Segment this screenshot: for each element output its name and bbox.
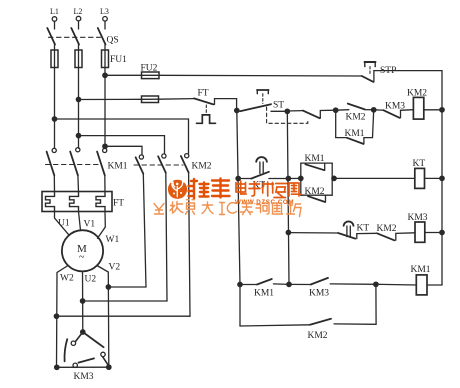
node parallel box row1 left xyxy=(334,108,338,112)
svg-text:KM2: KM2 xyxy=(305,187,325,197)
wire motor W2 down xyxy=(57,266,69,368)
wire L2 column to KM1 pole2 xyxy=(78,68,80,149)
node branch L3 to KM2 pole1 xyxy=(103,144,107,148)
coil KT xyxy=(413,159,426,188)
coil KM3 xyxy=(408,213,428,242)
node row4 bypass junction xyxy=(374,282,378,286)
coil KM1 xyxy=(411,265,431,295)
node branch L2 to KM2 pole2 xyxy=(76,133,80,137)
svg-text:KM2: KM2 xyxy=(377,224,397,234)
node parallel box row1 right xyxy=(372,108,376,112)
node U2 junction xyxy=(80,299,84,303)
wire L2 branch to KM2 pole2 xyxy=(79,136,165,154)
watermark text 维库 xyxy=(189,179,230,200)
wire L3 branch to KM2 pole1 xyxy=(105,146,142,155)
svg-text:FT: FT xyxy=(113,199,124,209)
wire L3 to fuse FU2a xyxy=(105,74,142,76)
node middle rail row4 xyxy=(287,282,291,286)
wire V2 to KM2 pole1 output xyxy=(108,286,146,288)
wire U2 to KM2 pole2 output xyxy=(83,300,167,302)
svg-text:QS: QS xyxy=(107,36,119,46)
node FT output junction xyxy=(235,108,239,112)
wire KT coil to right rail xyxy=(425,177,443,179)
wire right control rail xyxy=(441,71,443,285)
svg-text:KM1: KM1 xyxy=(108,162,128,172)
node ST output junction xyxy=(285,109,289,113)
wire row4 to KM1 coil xyxy=(376,283,416,286)
contactor KM1 main pole 3 xyxy=(97,148,107,175)
QS mechanical link (dashed) xyxy=(49,36,101,38)
wire KM2 pole1 output drop xyxy=(143,174,146,287)
wire KM1 pole2 to FT heater2 xyxy=(77,175,80,191)
svg-text:V1: V1 xyxy=(84,220,96,230)
contactor KM3 contact c (bottom) xyxy=(73,358,94,367)
contactor KM2 main pole 1 xyxy=(136,155,144,174)
fuse FU2 (lower) xyxy=(142,96,159,103)
node left rail row2 xyxy=(236,176,240,180)
contact KT delayed-open (row3) xyxy=(288,221,369,238)
node L3 terminal xyxy=(100,7,109,21)
node right rail row3 xyxy=(440,230,444,234)
svg-text:KM3: KM3 xyxy=(385,102,405,112)
contact KM2 interlock (row3) xyxy=(357,224,415,240)
contactor KM2 main pole 2 xyxy=(158,154,166,173)
wire KM2 pole3 output drop xyxy=(189,173,190,317)
contact ST linked pole (NO) xyxy=(287,110,335,118)
wire FT to motor V1 xyxy=(79,212,81,231)
node KM3 bottom-left xyxy=(55,365,59,369)
coil KM2 xyxy=(407,89,427,120)
fuse FU1 pole 1 xyxy=(51,50,58,68)
contact KM3 auxiliary (row4) xyxy=(289,278,376,299)
contactor KM3 contact b (apex right) xyxy=(83,332,109,366)
switch QS pole 3 xyxy=(98,28,106,45)
fuse FU2 (upper) xyxy=(141,64,160,79)
switch QS pole 2 xyxy=(71,28,79,45)
push button ST (NO start) xyxy=(240,90,284,111)
wire L2 drop to QS xyxy=(78,21,80,29)
node junction L2 to FU2b xyxy=(76,97,80,101)
contact KM2 auxiliary (row2 bottom branch) xyxy=(301,178,332,202)
svg-text:KM2: KM2 xyxy=(407,89,427,99)
contact KM2 bypass (row5) xyxy=(240,284,376,341)
wire left control rail xyxy=(237,111,240,327)
svg-text:KM2: KM2 xyxy=(192,162,212,172)
ST linkage dashes xyxy=(267,107,308,123)
wire KM1 pole3 to FT heater3 xyxy=(104,175,106,191)
contactor KM1 main pole 2 xyxy=(70,148,80,176)
svg-text:W1: W1 xyxy=(106,235,120,245)
svg-text:L2: L2 xyxy=(74,7,83,16)
thermal contact FT (NC) xyxy=(194,89,237,114)
node right rail row1 xyxy=(440,108,444,112)
node middle rail row2 xyxy=(286,176,290,180)
svg-text:U2: U2 xyxy=(85,275,97,285)
wire KM3 bottom side xyxy=(57,366,109,368)
node middle rail row3 xyxy=(286,230,290,234)
wire box row2 right side xyxy=(331,163,333,195)
wire W2 to KM2 pole3 output xyxy=(57,315,191,317)
svg-text:W2: W2 xyxy=(60,274,74,284)
svg-text:KM1: KM1 xyxy=(345,129,365,139)
fuse FU1 pole 3 xyxy=(102,50,109,68)
wire L1 drop to QS xyxy=(54,21,56,29)
svg-text:FU1: FU1 xyxy=(110,55,127,65)
push button STP (NC stop) xyxy=(362,62,397,82)
svg-text:FU2: FU2 xyxy=(141,64,158,74)
svg-text:KM2: KM2 xyxy=(308,331,328,341)
node L1 terminal xyxy=(50,7,59,21)
node parallel box row2 right xyxy=(332,176,336,180)
wire L1 branch to KM2 pole3 xyxy=(55,119,189,154)
FT heater element 1 xyxy=(46,192,55,212)
svg-text:L1: L1 xyxy=(50,7,59,16)
svg-text:U1: U1 xyxy=(58,219,70,229)
motor M xyxy=(62,230,103,271)
wire KM2 pole2 output drop xyxy=(166,173,167,301)
node KM3 star apex xyxy=(81,330,85,334)
wire row2 to KT coil xyxy=(332,177,415,179)
svg-text:KM1: KM1 xyxy=(411,265,431,275)
wire middle control rail xyxy=(287,111,289,284)
svg-text:L3: L3 xyxy=(100,7,109,16)
svg-text:KM2: KM2 xyxy=(346,113,366,123)
contact KM1 auxiliary (row1 bottom branch) xyxy=(336,110,374,144)
contact KT delayed-close (row2) xyxy=(238,157,288,190)
wire top control rail (left of STP) xyxy=(159,74,362,77)
svg-text:KM3: KM3 xyxy=(74,372,94,382)
switch QS pole 1 xyxy=(47,28,55,45)
node branch L1 to KM2 pole3 xyxy=(52,117,56,121)
node KM3 bottom-right xyxy=(107,365,111,369)
wire top control rail (right of STP) xyxy=(374,70,442,72)
thermal relay trip symbol of FT xyxy=(197,115,216,123)
watermark text 电子市场网 xyxy=(236,181,302,198)
node left rail row4 xyxy=(238,282,242,286)
wire FT to motor W1 xyxy=(98,212,106,239)
wire QS pole2 to FU1 xyxy=(78,45,80,51)
node L2 terminal xyxy=(74,7,83,21)
wire KM1 pole1 to FT heater1 xyxy=(53,175,55,191)
watermark text 全球最大IC采购网站 xyxy=(154,200,301,217)
svg-text:KM3: KM3 xyxy=(309,289,329,299)
svg-text:V2: V2 xyxy=(109,263,121,273)
KM1 main link (dashed) xyxy=(46,164,99,166)
wire fuse FU2b to FT contact xyxy=(159,98,195,101)
node W2 junction xyxy=(54,314,58,318)
wire L3 drop to QS xyxy=(104,21,106,29)
contactor KM2 main pole 3 xyxy=(181,154,189,173)
svg-text:KM3: KM3 xyxy=(408,213,428,223)
node V2 junction xyxy=(106,285,110,289)
wire L1 column to KM1 pole1 xyxy=(54,68,56,149)
fuse FU1 pole 2 xyxy=(75,50,82,68)
contactor KM3 contact a (apex left) xyxy=(65,332,83,361)
svg-text:FT: FT xyxy=(198,89,209,99)
wire row2 to box xyxy=(288,177,300,179)
wire ST to junction xyxy=(271,110,287,112)
node right rail row2 xyxy=(440,176,444,180)
contact KM1 self-holding (row4) xyxy=(240,279,289,299)
wire L3 column to KM1 pole3 xyxy=(104,68,106,149)
contactor KM1 main pole 1 xyxy=(47,148,57,175)
watermark logo circle xyxy=(168,180,187,199)
wire KM3 coil to right rail xyxy=(425,232,442,234)
wire QS pole1 to FU1 xyxy=(54,45,56,51)
contact KM3 interlock (row1) xyxy=(374,102,414,118)
contact KM1 auxiliary (row2 top branch) xyxy=(301,154,332,178)
FT heater element 3 xyxy=(96,192,105,212)
node parallel box row2 left xyxy=(299,176,303,180)
wire motor V2 down xyxy=(97,266,109,368)
wire KM1 coil to right rail xyxy=(427,284,442,286)
node junction L3 to FU2 xyxy=(103,73,107,77)
contact KM2 auxiliary (row1 top branch) xyxy=(336,104,374,123)
wire L2 to fuse FU2b xyxy=(79,98,142,100)
svg-text:KT: KT xyxy=(413,159,426,169)
svg-text:~: ~ xyxy=(79,252,85,263)
thermal relay FT heater box xyxy=(42,192,124,212)
wire FT to motor U1 xyxy=(55,212,70,236)
wire QS pole3 to FU1 xyxy=(104,45,106,51)
svg-text:ST: ST xyxy=(273,101,284,111)
FT heater element 2 xyxy=(70,192,79,212)
wire KM2 coil to right rail xyxy=(424,109,442,111)
svg-text:KM1: KM1 xyxy=(305,154,325,164)
KM2 main link (dashed) xyxy=(134,164,183,166)
wire motor U2 down xyxy=(82,271,84,332)
svg-text:KT: KT xyxy=(357,224,370,234)
svg-text:KM1: KM1 xyxy=(254,289,274,299)
